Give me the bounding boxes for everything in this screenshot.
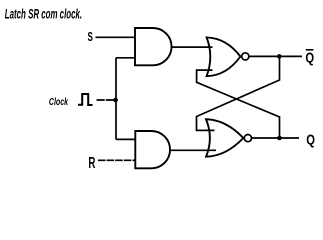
svg-text:S: S	[87, 30, 92, 44]
svg-text:R: R	[88, 154, 96, 172]
bubble NOR2 output	[244, 135, 251, 142]
wire clock horizontal	[97, 99, 117, 101]
NOR gate U4 (bottom)	[206, 119, 243, 157]
wire clock vertical bus	[115, 58, 117, 140]
svg-text:Latch SR com clock.: Latch SR com clock.	[5, 8, 82, 23]
wire feedback Qbar to NOR2 pin	[197, 56, 280, 130]
wire R to AND2	[98, 159, 135, 161]
svg-text:Q: Q	[306, 131, 315, 148]
AND gate U2 (bottom)	[135, 131, 170, 168]
wire feedback Q to NOR1 pin	[197, 70, 280, 138]
NOR gate U3 (top)	[207, 37, 241, 76]
wire clock stub to AND1 pin2	[116, 57, 135, 59]
wire AND2 output to NOR2	[170, 149, 217, 151]
wire AND1 output to NOR1	[171, 46, 213, 48]
bubble NOR1 output	[242, 53, 249, 60]
svg-text:Clock: Clock	[49, 96, 69, 108]
wire NOR2 output to Q	[252, 137, 300, 139]
AND gate U1 (top)	[135, 28, 172, 65]
wire Qbar overbar	[306, 49, 314, 51]
junction node Q	[277, 136, 282, 141]
wire S to AND1	[96, 36, 136, 38]
wire NOR1 output to Qbar	[249, 55, 302, 57]
wire clock stub to AND2 pin1	[116, 138, 135, 140]
clock pulse symbol	[78, 94, 93, 105]
junction node Qbar	[277, 54, 282, 59]
svg-text:Q: Q	[305, 49, 314, 66]
junction clock node	[113, 98, 118, 103]
